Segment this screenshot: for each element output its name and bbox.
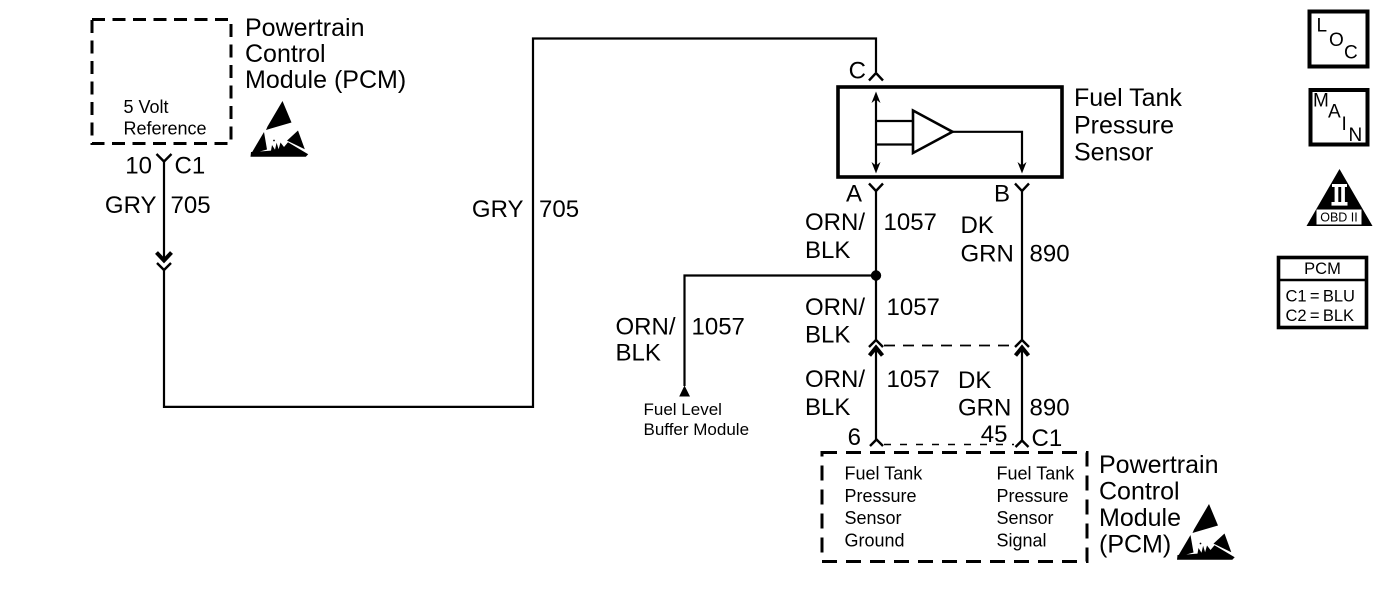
OBD II triangle symbol <box>1307 169 1373 226</box>
svg-text:Signal: Signal <box>997 530 1047 550</box>
svg-text:C2 = BLK: C2 = BLK <box>1286 307 1355 325</box>
dashed connector separation line (lower, thin) <box>884 444 1014 446</box>
svg-text:L: L <box>1317 16 1328 37</box>
svg-text:Fuel Tank: Fuel Tank <box>845 464 924 484</box>
svg-text:705: 705 <box>539 196 579 223</box>
svg-text:Fuel Tank: Fuel Tank <box>1074 84 1182 112</box>
svg-text:GRY: GRY <box>472 196 524 223</box>
svg-text:Pressure: Pressure <box>845 486 917 506</box>
svg-text:A: A <box>846 181 862 208</box>
in-line connector male arrow (down) <box>157 253 172 261</box>
svg-text:A: A <box>1328 102 1341 123</box>
svg-text:Reference: Reference <box>124 119 207 139</box>
svg-text:(PCM): (PCM) <box>1099 531 1171 559</box>
svg-text:GRN: GRN <box>961 241 1014 268</box>
svg-text:DK: DK <box>958 367 991 394</box>
pin 6 connector fork <box>870 440 883 447</box>
svg-text:Ground: Ground <box>845 530 905 550</box>
svg-text:1057: 1057 <box>692 314 745 341</box>
sensor internal input stubs <box>876 120 913 122</box>
wire GRY 705 long run: down, right, up, right to sensor pin C <box>164 39 876 407</box>
svg-text:Buffer Module: Buffer Module <box>644 420 750 439</box>
dashed box: PCM 5 Volt Reference <box>92 20 231 144</box>
off-page arrow to Fuel Level Buffer Module <box>679 386 690 397</box>
svg-text:BLK: BLK <box>805 322 850 349</box>
svg-text:Sensor: Sensor <box>997 508 1054 528</box>
svg-text:C1: C1 <box>175 153 206 180</box>
svg-text:BLK: BLK <box>805 394 850 421</box>
svg-text:ORN/: ORN/ <box>616 314 676 341</box>
wire GRY 705 upper segment <box>163 161 165 258</box>
svg-text:ORN/: ORN/ <box>805 209 865 236</box>
in-line connector male arrow (up) on A wire <box>870 348 883 356</box>
svg-text:1057: 1057 <box>887 366 940 393</box>
svg-text:890: 890 <box>1030 241 1070 268</box>
in-line connector female fork on B wire <box>1015 340 1029 347</box>
svg-text:Sensor: Sensor <box>1074 139 1153 167</box>
wire DK GRN 890 from pin B to connector <box>1021 191 1023 342</box>
svg-text:705: 705 <box>171 192 211 219</box>
pin A connector fork <box>869 184 883 192</box>
op-amp triangle (sensor amplifier) <box>913 111 953 154</box>
svg-text:Sensor: Sensor <box>845 508 902 528</box>
svg-text:B: B <box>994 181 1010 208</box>
ESD symbol (bottom PCM) <box>1177 504 1235 560</box>
in-line connector female fork <box>157 263 171 270</box>
in-line connector female fork on A wire <box>869 340 883 347</box>
ESD symbol (top PCM) <box>251 101 309 157</box>
pin 10 connector fork <box>157 154 172 162</box>
svg-text:Pressure: Pressure <box>997 486 1069 506</box>
svg-text:ORN/: ORN/ <box>805 366 865 393</box>
legend box MAIN <box>1311 90 1368 145</box>
svg-text:GRY: GRY <box>105 192 157 219</box>
svg-text:Powertrain: Powertrain <box>245 14 365 42</box>
sensor internal supply line with arrowheads <box>875 95 877 170</box>
svg-text:OBD II: OBD II <box>1320 211 1358 225</box>
svg-text:M: M <box>1313 91 1329 112</box>
svg-text:1057: 1057 <box>884 209 937 236</box>
wire ORN/BLK 1057 connector to pin 6 <box>875 350 877 440</box>
svg-text:Control: Control <box>245 40 326 68</box>
branch wire ORN/BLK 1057 to Fuel Level Buffer Module <box>685 276 877 387</box>
dashed connector separation line (upper) <box>884 345 1014 347</box>
svg-text:N: N <box>1349 125 1363 146</box>
svg-text:10: 10 <box>125 153 152 180</box>
pin 45 connector fork <box>1016 441 1029 448</box>
dashed box: Powertrain Control Module bottom <box>822 453 1087 562</box>
svg-text:C1 = BLU: C1 = BLU <box>1286 288 1355 306</box>
legend box LOC <box>1310 12 1368 67</box>
svg-text:Fuel Tank: Fuel Tank <box>997 464 1076 484</box>
svg-text:O: O <box>1329 30 1344 51</box>
junction node (splice) <box>871 270 881 280</box>
svg-text:Fuel Level: Fuel Level <box>644 400 722 419</box>
svg-text:BLK: BLK <box>805 237 850 264</box>
svg-text:PCM: PCM <box>1304 260 1341 278</box>
wire DK GRN 890 connector to pin 45 <box>1021 350 1023 441</box>
svg-text:C: C <box>1344 43 1358 64</box>
svg-text:C1: C1 <box>1032 425 1063 452</box>
svg-text:GRN: GRN <box>958 395 1011 422</box>
svg-text:Module (PCM): Module (PCM) <box>245 66 406 94</box>
in-line connector male arrow (up) on B wire <box>1016 348 1029 356</box>
svg-text:Control: Control <box>1099 478 1180 506</box>
svg-text:Powertrain: Powertrain <box>1099 451 1219 479</box>
Fuel Tank Pressure Sensor box <box>838 87 1062 177</box>
svg-text:6: 6 <box>848 424 861 451</box>
svg-text:ORN/: ORN/ <box>805 294 865 321</box>
svg-text:Pressure: Pressure <box>1074 112 1174 140</box>
svg-text:1057: 1057 <box>887 294 940 321</box>
svg-text:C: C <box>849 58 866 85</box>
legend table: PCM connector colors <box>1279 258 1367 328</box>
pin B connector fork <box>1015 184 1029 192</box>
svg-text:5 Volt: 5 Volt <box>124 97 169 117</box>
wire ORN/BLK 1057 from pin A to junction <box>875 191 877 342</box>
sensor output wire to pin B with arrowhead <box>953 132 1023 166</box>
svg-text:I: I <box>1342 114 1347 135</box>
pin C connector fork <box>869 73 883 81</box>
svg-text:BLK: BLK <box>616 340 661 367</box>
svg-text:Module: Module <box>1099 504 1181 532</box>
svg-text:890: 890 <box>1030 395 1070 422</box>
svg-text:DK: DK <box>961 212 994 239</box>
